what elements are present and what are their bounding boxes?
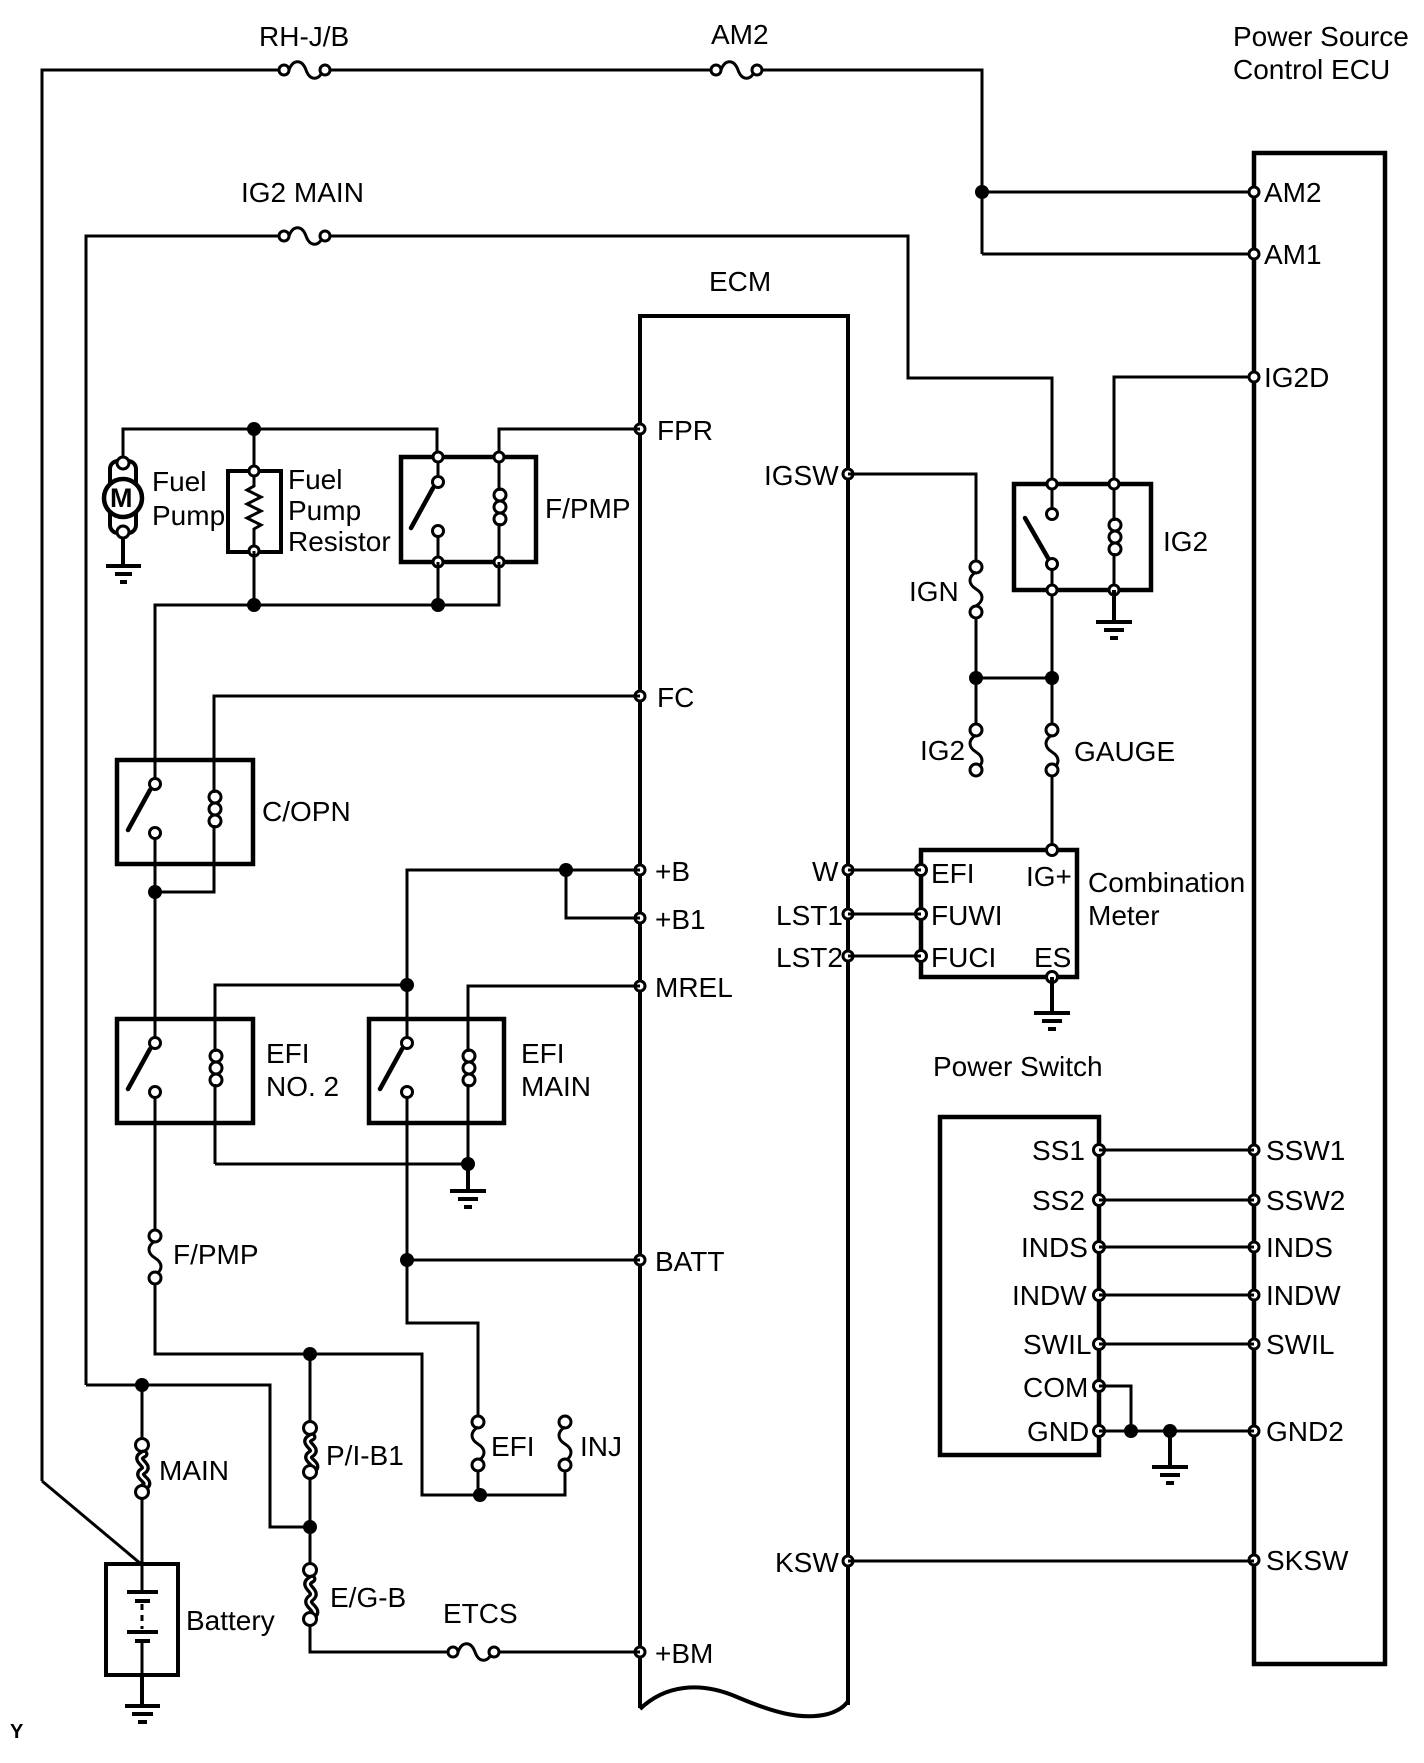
svg-text:AM1: AM1 (1264, 239, 1322, 270)
svg-text:Resistor: Resistor (288, 526, 391, 557)
svg-text:FUCI: FUCI (931, 942, 996, 973)
wire: COM jog (1099, 1386, 1131, 1431)
node: resistor bottom junction (247, 598, 261, 612)
svg-text:SWIL: SWIL (1266, 1329, 1334, 1360)
wire: diagonal battery feed (42, 1481, 141, 1564)
fuse MAIN F6 (fusible link) (136, 1439, 230, 1499)
svg-text:MAIN: MAIN (159, 1455, 229, 1486)
pin SS1 (1094, 1145, 1105, 1156)
svg-text:COM: COM (1023, 1372, 1088, 1403)
node: P/I-B1 top junction (303, 1347, 317, 1361)
fusible link ETCS (443, 1598, 518, 1660)
svg-text:AM2: AM2 (711, 19, 769, 50)
relay C/OPN K2 (117, 758, 351, 892)
svg-text:GND2: GND2 (1266, 1416, 1344, 1447)
wire: C/OPN down to EFI NO.2 switch (154, 892, 157, 1043)
fuse P/I-B1 F4 (fusible link) (304, 1422, 404, 1479)
svg-text:+B1: +B1 (655, 904, 706, 935)
pin GND2 (1249, 1416, 1344, 1447)
pin INDS (1094, 1242, 1105, 1253)
wire: pump network bottom rail y=605 (155, 551, 499, 760)
battery BT1 (106, 1564, 275, 1675)
wire: SS1-SSW1 (1099, 1149, 1254, 1152)
svg-text:SSW2: SSW2 (1266, 1185, 1345, 1216)
pin FUCI (916, 951, 927, 962)
wire: SWIL (1099, 1343, 1254, 1346)
node: COM junction (1124, 1424, 1138, 1438)
pin +BM (635, 1638, 713, 1669)
wire: F/PMP coil to FPR pin (499, 429, 640, 457)
svg-text:GND: GND (1027, 1416, 1089, 1447)
ground: IG2 relay coil (1096, 590, 1132, 638)
svg-text:EFI: EFI (931, 858, 975, 889)
combination meter U3 (921, 850, 1245, 977)
pin IG+ (1047, 845, 1058, 856)
pin GND (1094, 1426, 1105, 1437)
node: ground junction (1163, 1424, 1177, 1438)
svg-text:Combination: Combination (1088, 867, 1245, 898)
wire: battery feed top rail y=70 (42, 70, 982, 1481)
pin MREL (635, 972, 733, 1003)
fusible link RH-J/B (259, 21, 349, 78)
svg-text:MAIN: MAIN (521, 1071, 591, 1102)
fuse IGN F7 (909, 561, 982, 618)
svg-text:+B: +B (655, 856, 690, 887)
svg-text:INDW: INDW (1266, 1280, 1341, 1311)
node: EFI fuse bottom junction (473, 1488, 487, 1502)
pin +B1 (635, 904, 706, 935)
svg-text:F/PMP: F/PMP (173, 1239, 259, 1270)
wire: MAIN fuse column (141, 1385, 144, 1564)
pin SKSW (1249, 1545, 1349, 1576)
ECM box U2 (640, 266, 848, 1716)
svg-text:ES: ES (1034, 942, 1071, 973)
fuse F/PMP F1 (149, 1123, 259, 1284)
ground: battery (125, 1675, 160, 1722)
wire: LST1 to FUWI (848, 913, 921, 916)
svg-text:GAUGE: GAUGE (1074, 736, 1175, 767)
wire: EFI NO.2 coil to ground rail (215, 1163, 468, 1166)
pin FPR (635, 415, 713, 446)
svg-text:INJ: INJ (580, 1431, 622, 1462)
svg-text:FPR: FPR (657, 415, 713, 446)
svg-text:AM2: AM2 (1264, 177, 1322, 208)
pin FUWI (916, 909, 927, 920)
node: EFI MAIN switch top junction (400, 978, 414, 992)
wire: GND-GND2 (1099, 1430, 1254, 1433)
svg-text:Fuel: Fuel (152, 466, 206, 497)
svg-text:+BM: +BM (655, 1638, 713, 1669)
wire: junction to EFI NO.2 coil (215, 985, 407, 1047)
wire: F/PMP fuse to bottom rail y=1354 (155, 1284, 565, 1495)
svg-text:IG2 MAIN: IG2 MAIN (241, 177, 364, 208)
svg-text:LST2: LST2 (776, 942, 843, 973)
svg-text:NO. 2: NO. 2 (266, 1071, 339, 1102)
svg-text:F/PMP: F/PMP (545, 493, 631, 524)
svg-text:Meter: Meter (1088, 900, 1160, 931)
pin LST2 (776, 942, 853, 973)
wire: INDS (1099, 1246, 1254, 1249)
pin INDW (ECU) (1249, 1280, 1341, 1311)
pin SS2 (1094, 1195, 1105, 1206)
power switch box S1 (940, 1117, 1099, 1455)
svg-text:Y: Y (10, 1721, 24, 1743)
pin SWIL (ECU) (1249, 1329, 1334, 1360)
ground: power switch (1152, 1431, 1188, 1483)
svg-text:BATT: BATT (655, 1246, 724, 1277)
node: relay switch bottom junction (431, 598, 445, 612)
wire: IG2D to IG2 relay coil (1114, 377, 1254, 484)
pin W (812, 856, 853, 887)
svg-text:SS1: SS1 (1032, 1135, 1085, 1166)
svg-text:Power Switch: Power Switch (933, 1051, 1103, 1082)
svg-text:LST1: LST1 (776, 900, 843, 931)
wire: LST2 to FUCI (848, 955, 921, 958)
svg-text:KSW: KSW (775, 1547, 839, 1578)
wire: MAIN rail y=1385 (86, 1385, 310, 1527)
node: fuel pump resistor top junction (247, 422, 261, 436)
wire: IGSW to IGN fuse (848, 474, 976, 562)
svg-text:EFI: EFI (266, 1038, 310, 1069)
wire: EFI fuse bottom (477, 1465, 480, 1495)
svg-text:ETCS: ETCS (443, 1598, 518, 1629)
svg-text:P/I-B1: P/I-B1 (326, 1440, 404, 1471)
node: BATT junction (400, 1253, 414, 1267)
pin INDS (ECU) (1249, 1232, 1333, 1263)
ground: meter ES (1034, 977, 1070, 1029)
ground: EFI MAIN coil (450, 1164, 486, 1207)
wire: W to EFI (848, 869, 921, 872)
wire: BATT (407, 1259, 640, 1262)
node: MAIN fuse top junction (135, 1378, 149, 1392)
svg-text:Fuel: Fuel (288, 464, 342, 495)
pin AM1 (1249, 239, 1322, 270)
pin SSW1 (1249, 1135, 1345, 1166)
svg-text:MREL: MREL (655, 972, 733, 1003)
svg-text:SWIL: SWIL (1023, 1329, 1091, 1360)
relay EFI NO.2 K3 (117, 1017, 339, 1164)
svg-text:Control ECU: Control ECU (1233, 54, 1390, 85)
svg-text:Pump: Pump (288, 495, 361, 526)
svg-text:C/OPN: C/OPN (262, 796, 351, 827)
svg-text:SSW1: SSW1 (1266, 1135, 1345, 1166)
svg-text:FUWI: FUWI (931, 900, 1003, 931)
fusible link IG2 MAIN (241, 177, 364, 244)
svg-text:RH-J/B: RH-J/B (259, 21, 349, 52)
pin +B (635, 856, 690, 887)
svg-text:EFI: EFI (521, 1038, 565, 1069)
svg-text:Pump: Pump (152, 500, 225, 531)
wire: P/I-B1 / E/G-B column (310, 1354, 640, 1652)
wire: BATT junction to EFI fuse (407, 1260, 478, 1422)
node: coil ground junction (461, 1157, 475, 1171)
pin SSW2 (1249, 1185, 1345, 1216)
svg-text:IG+: IG+ (1026, 861, 1072, 892)
fuse EFI F2 (472, 1416, 535, 1471)
fuse E/G-B F5 (fusible link) (304, 1564, 407, 1626)
node: IGN junction (969, 671, 983, 685)
wire: +B rail (407, 870, 640, 985)
pin COM (1094, 1381, 1105, 1392)
fuse IG2 F8 (920, 724, 982, 776)
relay IG2 K5 (1014, 479, 1208, 595)
pin SWIL (1094, 1339, 1105, 1350)
svg-text:IG2: IG2 (1163, 526, 1208, 557)
svg-text:Battery: Battery (186, 1605, 275, 1636)
wire: KSW to SKSW (848, 1560, 1254, 1563)
pin AM2 (1249, 177, 1322, 208)
pin ES (1047, 972, 1058, 983)
wire: to AM2 pin (982, 191, 1254, 194)
wire: junction rail (976, 677, 1052, 680)
node: junction to AM2 pin (975, 185, 989, 199)
svg-text:IGSW: IGSW (764, 460, 839, 491)
wire: IG2 relay switch to junction (1051, 590, 1054, 725)
pin BATT (635, 1246, 724, 1277)
node: GAUGE junction (1045, 671, 1059, 685)
svg-text:IG2: IG2 (920, 735, 965, 766)
wire: FPR rail y=429 left part (123, 429, 437, 471)
wire: to AM1 pin (982, 253, 1254, 256)
wire: IGN fuse to junction (975, 618, 978, 725)
svg-text:EFI: EFI (491, 1431, 535, 1462)
fuse INJ F3 (559, 1416, 622, 1471)
svg-text:FC: FC (657, 682, 694, 713)
svg-text:INDS: INDS (1021, 1232, 1088, 1263)
svg-text:M: M (110, 483, 133, 513)
fusible link AM2 (711, 19, 769, 78)
pin LST1 (776, 900, 853, 931)
svg-text:IG2D: IG2D (1264, 362, 1329, 393)
svg-text:INDS: INDS (1266, 1232, 1333, 1263)
wire: FC to C/OPN coil (214, 696, 640, 762)
svg-text:ECM: ECM (709, 266, 771, 297)
wire: IG2 MAIN rail y=236 (86, 236, 1052, 1385)
wire: GAUGE fuse to IG+ (1051, 776, 1054, 850)
fuel pump motor M1 (104, 457, 225, 538)
wire: SS2-SSW2 (1099, 1199, 1254, 1202)
pin IGSW (764, 460, 853, 491)
node: E/G-B top junction (303, 1520, 317, 1534)
svg-text:W: W (812, 856, 839, 887)
ground: fuel pump (106, 538, 141, 582)
svg-text:SKSW: SKSW (1266, 1545, 1349, 1576)
relay EFI MAIN K4 (369, 1017, 591, 1260)
svg-text:IGN: IGN (909, 576, 959, 607)
pin FC (635, 682, 694, 713)
pin IG2D (1249, 362, 1329, 393)
Power Source Control ECU box U1 (1233, 21, 1409, 1664)
svg-text:Power Source: Power Source (1233, 21, 1409, 52)
pin INDW (1094, 1290, 1105, 1301)
wire: INDW (1099, 1294, 1254, 1297)
pin KSW (775, 1547, 853, 1578)
svg-text:E/G-B: E/G-B (330, 1582, 406, 1613)
node: +B / +B1 junction (559, 863, 573, 877)
fuse GAUGE F9 (1046, 724, 1175, 776)
wire: MREL to EFI MAIN coil (468, 986, 640, 1047)
node: C/OPN output junction (148, 885, 162, 899)
svg-text:INDW: INDW (1012, 1280, 1087, 1311)
svg-text:SS2: SS2 (1032, 1185, 1085, 1216)
relay F/PMP K1 (401, 452, 631, 567)
pin EFI (meter) (916, 865, 927, 876)
fuel pump resistor R1 (228, 464, 391, 557)
